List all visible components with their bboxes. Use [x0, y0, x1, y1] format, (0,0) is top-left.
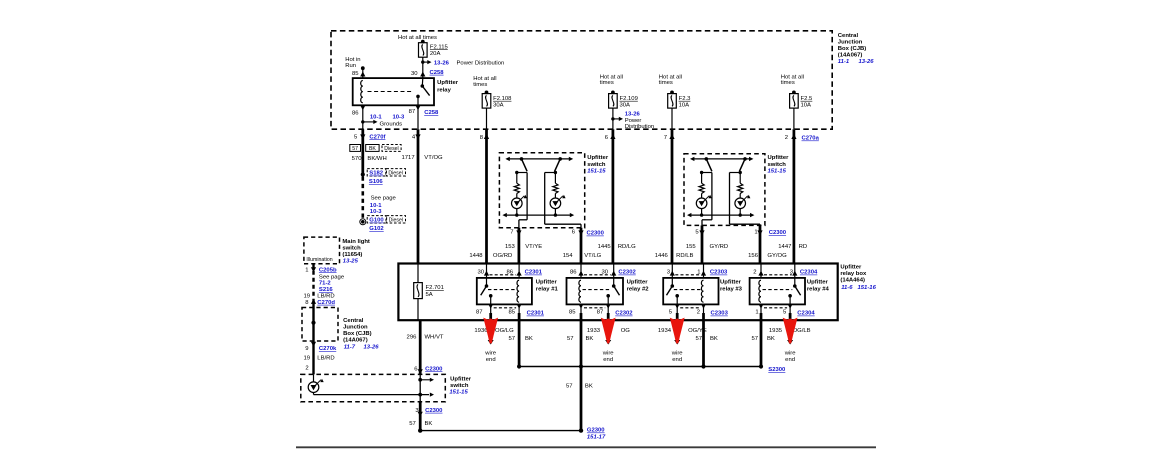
relay #1 coil — [517, 280, 519, 302]
svg-text:relay box: relay box — [840, 271, 867, 277]
svg-text:end: end — [785, 357, 795, 363]
fuse F2.108 30A — [482, 91, 512, 109]
relay #4 bottom pin labels — [755, 309, 815, 316]
svg-text:OG: OG — [621, 328, 631, 334]
svg-text:C2301: C2301 — [527, 311, 545, 317]
wire 1447 RD — [793, 129, 796, 263]
switch contact tap 2 — [730, 171, 742, 174]
label 296 WH/VT — [407, 335, 444, 341]
svg-text:F2.3: F2.3 — [679, 96, 692, 102]
switch output jog right — [730, 173, 761, 226]
lamp to bottom rail 1 — [700, 209, 703, 217]
upfitter switch label — [768, 155, 790, 174]
svg-text:C2303: C2303 — [710, 270, 728, 276]
red wire-end arrow 1933 — [601, 318, 616, 344]
switch bottom rail — [502, 213, 574, 217]
svg-text:See page: See page — [371, 196, 397, 202]
wire F2.3 down to CJB pin 7 — [671, 108, 673, 129]
svg-text:71-2: 71-2 — [319, 281, 332, 287]
svg-text:Upfitter: Upfitter — [807, 280, 829, 286]
svg-text:C270f: C270f — [369, 134, 385, 140]
label 1445 RD/LG — [598, 244, 637, 250]
svg-text:Upfitter: Upfitter — [536, 280, 558, 286]
label 57 BK (relay3) — [695, 336, 717, 342]
svg-text:times: times — [659, 80, 673, 86]
switch blade 1 — [520, 157, 527, 171]
svg-text:87: 87 — [409, 109, 416, 115]
svg-text:9: 9 — [305, 346, 308, 352]
pin 1 connector C205b — [305, 267, 337, 273]
page footer rule — [296, 446, 876, 448]
label Hot at all times (F2.109) — [600, 74, 623, 86]
label Hot at all times (F2.108) — [473, 76, 496, 88]
wire F2.115 to relay pin 30 — [422, 57, 424, 78]
main light switch dashed box — [304, 237, 340, 264]
label 19 LB/RD lower — [303, 356, 334, 362]
svg-text:LB/RD: LB/RD — [317, 356, 334, 362]
wire 154 VT/LG — [580, 228, 583, 264]
svg-text:wire: wire — [484, 350, 497, 356]
svg-text:153: 153 — [505, 244, 516, 250]
switch top rail — [690, 157, 753, 161]
svg-text:Grounds: Grounds — [380, 122, 403, 128]
svg-text:20A: 20A — [430, 51, 441, 57]
svg-text:151-16: 151-16 — [858, 285, 877, 291]
indicator resistor 1 — [699, 173, 704, 199]
svg-text:2: 2 — [785, 135, 788, 141]
svg-text:C2302: C2302 — [618, 270, 636, 276]
wire 1933 OG stub — [605, 313, 611, 345]
wire 1934 OG/YE stub — [674, 313, 680, 345]
svg-text:C258: C258 — [424, 110, 439, 116]
svg-text:Upfitter: Upfitter — [450, 376, 472, 382]
svg-text:5A: 5A — [426, 292, 433, 298]
switch contact tap 1 — [515, 171, 527, 174]
op relay #2 body — [567, 278, 624, 305]
svg-text:11-6: 11-6 — [841, 285, 853, 291]
lamp to bottom rail 2 — [739, 209, 742, 217]
svg-text:F2.115: F2.115 — [430, 44, 449, 50]
svg-text:BK: BK — [369, 146, 376, 152]
svg-text:C258: C258 — [430, 70, 445, 76]
svg-text:BK/WH: BK/WH — [367, 156, 386, 162]
label wire end 1934 — [671, 350, 684, 363]
svg-text:OG/LG: OG/LG — [495, 328, 514, 334]
fuse F2.115 20A — [419, 40, 449, 58]
relay #3 bottom pin arrows — [675, 304, 707, 313]
svg-text:154: 154 — [563, 253, 574, 259]
upfitter relay body — [353, 78, 434, 105]
relay #4 label — [807, 280, 830, 293]
svg-text:10A: 10A — [679, 102, 690, 108]
relay #1 bottom pin arrows — [488, 304, 522, 313]
op relay #4 body — [750, 278, 805, 305]
CJB label — [838, 33, 874, 65]
svg-text:7: 7 — [510, 230, 513, 236]
svg-text:156: 156 — [748, 253, 759, 259]
relay #2 top pin labels — [570, 269, 637, 275]
svg-text:296: 296 — [407, 335, 418, 341]
main light switch label — [342, 239, 370, 264]
ground G100 G102 — [360, 216, 406, 232]
svg-text:switch: switch — [587, 162, 606, 168]
fuse F2.5 10A — [790, 91, 813, 109]
relay #4 pin wires into box — [761, 264, 795, 278]
svg-text:Main light: Main light — [342, 239, 370, 245]
pin arrow 8 — [484, 134, 489, 139]
wire F2.108 down to CJB pin 8 — [486, 108, 488, 129]
switch contact tap 1 — [700, 171, 712, 174]
svg-text:1: 1 — [697, 269, 700, 275]
svg-text:1445: 1445 — [598, 244, 612, 250]
CJB lower label — [343, 318, 379, 350]
svg-text:C2302: C2302 — [615, 311, 633, 317]
svg-text:BK: BK — [710, 336, 718, 342]
svg-text:86: 86 — [570, 269, 577, 275]
svg-text:switch: switch — [768, 162, 787, 168]
svg-text:2: 2 — [753, 269, 756, 275]
relay #2 bottom pin arrows — [578, 304, 610, 313]
Central Junction Box (CJB) dashed boundary — [331, 31, 832, 129]
label wire end 1933 — [602, 350, 615, 363]
splice S182 S106 — [361, 169, 406, 185]
pin 3 connector C2300 — [415, 408, 443, 417]
relay #4 top pin labels — [753, 269, 818, 275]
pin 6 connector C2300 (bottom switch) — [414, 366, 443, 374]
svg-text:WH/VT: WH/VT — [425, 335, 444, 341]
fuse F2.3 10A — [668, 91, 691, 109]
op relay #3 body — [663, 278, 718, 305]
relay #2 pin wires into box — [581, 264, 614, 278]
svg-text:end: end — [603, 357, 613, 363]
upfitter relay box label — [840, 264, 876, 291]
label 156 GY/OG — [748, 253, 787, 259]
label 1448 OG/RD — [469, 253, 512, 259]
svg-text:VT/YE: VT/YE — [525, 244, 542, 250]
svg-text:Upfitter: Upfitter — [768, 155, 790, 161]
wire 1717 VT/OG — [417, 129, 420, 263]
svg-text:RD: RD — [799, 244, 808, 250]
svg-text:1717: 1717 — [401, 155, 414, 161]
pin 9 connector C270k — [305, 342, 337, 352]
pin arrow 5 — [360, 134, 365, 139]
svg-text:1935: 1935 — [769, 328, 783, 334]
svg-text:C270a: C270a — [802, 136, 820, 142]
node power distribution branch — [421, 60, 431, 64]
svg-text:end: end — [672, 357, 682, 363]
pin arrow 30 — [420, 72, 425, 77]
svg-text:11-1: 11-1 — [838, 59, 849, 65]
svg-text:1446: 1446 — [655, 253, 669, 259]
wire 1935 OG/LB stub — [787, 313, 793, 345]
upfitter relay label — [437, 80, 459, 94]
svg-text:7: 7 — [664, 135, 667, 141]
svg-text:relay #4: relay #4 — [807, 287, 830, 293]
indicator resistor 2 — [738, 173, 743, 199]
relay #2 actuator dashed link — [583, 289, 612, 291]
relay #3 coil — [701, 280, 703, 302]
svg-text:30: 30 — [411, 71, 418, 77]
svg-text:10-3: 10-3 — [393, 114, 406, 120]
svg-text:10-1: 10-1 — [370, 203, 383, 209]
pin arrow 2 — [791, 134, 796, 139]
upfitter relay box boundary — [398, 264, 837, 321]
svg-text:OG/RD: OG/RD — [493, 253, 512, 259]
svg-text:13-26: 13-26 — [859, 59, 875, 65]
relay #3 pin wires into box — [672, 264, 703, 278]
indicator lamp 1 — [696, 198, 707, 209]
svg-text:Box (CJB): Box (CJB) — [838, 46, 867, 52]
svg-text:VT/OG: VT/OG — [424, 155, 443, 161]
svg-text:C2300: C2300 — [587, 231, 605, 237]
switch contact tap 2 — [545, 171, 557, 174]
svg-text:BK: BK — [585, 383, 593, 389]
svg-text:C2300: C2300 — [425, 408, 443, 414]
relay #2 bottom pin labels — [569, 309, 633, 316]
wire 57 BK relay2 85 down to G2300 — [580, 313, 583, 431]
svg-text:relay #3: relay #3 — [720, 287, 743, 293]
relay #3 bottom pin labels — [669, 309, 729, 316]
svg-text:13-26: 13-26 — [364, 344, 380, 350]
svg-text:C2300: C2300 — [769, 230, 787, 236]
label 155 GY/RD — [686, 244, 728, 250]
svg-text:OG/LB: OG/LB — [793, 328, 811, 334]
svg-text:S216: S216 — [319, 287, 333, 293]
svg-text:Central: Central — [838, 33, 859, 39]
pin arrow 86 — [360, 105, 365, 129]
svg-text:BK: BK — [586, 336, 594, 342]
svg-text:Upfitter: Upfitter — [587, 155, 609, 161]
wire 57 BK relay1 85 — [518, 313, 521, 367]
label 1717 VT/OG — [401, 155, 443, 161]
pin arrow 4 — [415, 134, 420, 139]
svg-text:86: 86 — [352, 111, 359, 117]
wire 1445 RD/LG — [612, 129, 615, 263]
svg-text:57: 57 — [409, 421, 416, 427]
switch bottom rail — [687, 213, 754, 217]
svg-text:2: 2 — [305, 366, 308, 372]
switch blade 2 — [555, 157, 562, 171]
label 13-26 Power Distribution (F2.109) — [625, 112, 654, 131]
pin arrow 6 — [610, 134, 615, 139]
label 57 BK (relay2) — [567, 336, 593, 342]
indicator resistor 2 — [553, 173, 558, 199]
lamp to bottom rail 1 — [515, 209, 518, 217]
svg-text:G2300: G2300 — [587, 428, 605, 434]
relay #4 actuator dashed link — [763, 289, 793, 291]
svg-text:Upfitter: Upfitter — [627, 280, 649, 286]
svg-text:151-15: 151-15 — [768, 168, 787, 174]
svg-text:Illumination: Illumination — [306, 257, 332, 263]
bottom switch illumination lamp — [308, 374, 324, 394]
relay #4 top pin arrows — [758, 271, 797, 276]
relay #1 label — [536, 280, 559, 293]
svg-text:GY/OG: GY/OG — [767, 253, 787, 259]
svg-text:57: 57 — [695, 336, 702, 342]
svg-text:F2.5: F2.5 — [801, 96, 814, 102]
label 570 BK/WH — [352, 156, 387, 162]
svg-text:F2.701: F2.701 — [426, 285, 444, 291]
relay #3 top pin arrows — [670, 271, 706, 276]
relay #3 actuator dashed link — [674, 289, 701, 291]
svg-text:30A: 30A — [493, 102, 504, 108]
relay #3 top pin labels — [667, 269, 728, 275]
label 13-26 Power Distribution — [434, 61, 504, 67]
pin arrow 85 — [360, 72, 365, 77]
label wire end 1936 — [484, 350, 497, 363]
svg-text:10-1: 10-1 — [370, 114, 383, 120]
ground bus wire — [517, 364, 763, 368]
svg-text:RD/LG: RD/LG — [618, 244, 636, 250]
svg-text:Diesel: Diesel — [388, 170, 402, 176]
upfitter switch dashed box — [499, 153, 584, 228]
wire 1446 RD/LB — [671, 129, 674, 263]
relay #3 switch blade — [667, 278, 680, 305]
indicator lamp 1 — [512, 198, 523, 209]
svg-text:1933: 1933 — [587, 328, 601, 334]
label Hot in Run — [345, 57, 360, 69]
relay #4 bottom pin arrows — [758, 304, 792, 313]
CJB lower dashed box — [302, 308, 338, 342]
wire 296 WH/VT — [419, 320, 422, 374]
svg-text:F2.108: F2.108 — [493, 96, 512, 102]
svg-text:G102: G102 — [369, 226, 384, 232]
label 1446 RD/LB — [655, 253, 694, 259]
node power distribution branch F2.109 — [611, 117, 623, 121]
svg-text:BK: BK — [525, 336, 533, 342]
svg-text:85: 85 — [508, 309, 515, 315]
svg-text:times: times — [473, 82, 487, 88]
pin arrow 5 (switch2) — [699, 230, 704, 235]
svg-text:BK: BK — [425, 421, 433, 427]
svg-text:GY/RD: GY/RD — [710, 244, 729, 250]
relay #2 switch blade — [606, 278, 619, 305]
svg-text:1934: 1934 — [658, 328, 672, 334]
label 1447 RD — [778, 244, 807, 250]
svg-text:86: 86 — [506, 269, 513, 275]
red wire-end arrow 1935 — [783, 318, 798, 344]
relay #4 switch blade — [788, 278, 800, 305]
svg-text:151-17: 151-17 — [587, 435, 606, 441]
svg-text:C270k: C270k — [319, 346, 337, 352]
label See page 71-2 S216 — [319, 274, 345, 293]
label 19 LB/RD upper — [303, 294, 334, 300]
svg-text:1447: 1447 — [778, 244, 791, 250]
svg-text:C2303: C2303 — [711, 311, 729, 317]
wire 570 BK/WH — [361, 129, 364, 174]
switch blade 2 — [739, 157, 746, 171]
relay switch blade — [416, 78, 429, 105]
svg-text:57: 57 — [751, 336, 758, 342]
pin arrow 7 — [669, 134, 674, 139]
svg-text:Central: Central — [343, 318, 364, 324]
indicator lamp 2 — [735, 198, 746, 209]
label 1934 OG/YE — [658, 328, 707, 334]
switch output jog left — [519, 173, 527, 228]
svg-text:times: times — [781, 80, 795, 86]
ground G2300 — [587, 428, 606, 441]
svg-text:2: 2 — [697, 309, 700, 315]
wire 1448 OG/RD — [485, 129, 488, 263]
svg-text:BK: BK — [767, 336, 775, 342]
svg-text:Distribution: Distribution — [625, 124, 654, 130]
svg-text:87: 87 — [597, 309, 604, 315]
svg-text:19: 19 — [303, 356, 310, 362]
svg-text:(14A464): (14A464) — [840, 277, 865, 283]
svg-text:S182: S182 — [369, 171, 383, 177]
svg-text:30: 30 — [601, 269, 608, 275]
wire 153 VT/YE — [518, 228, 521, 264]
relay #4 coil — [759, 280, 761, 302]
label 57 BK (below bus) — [566, 383, 593, 389]
grounds branch node — [361, 120, 377, 124]
svg-text:relay: relay — [437, 88, 451, 94]
svg-text:57: 57 — [567, 336, 574, 342]
relay #2 coil — [579, 280, 581, 302]
wire 19 LB/RD dashed segment — [312, 264, 314, 301]
svg-text:(14A067): (14A067) — [343, 338, 368, 344]
svg-text:relay #2: relay #2 — [627, 287, 650, 293]
switch output jog left — [702, 173, 712, 226]
upfitter switch dashed box — [684, 154, 765, 226]
ground run to G2300 — [418, 428, 583, 432]
svg-text:C2301: C2301 — [525, 270, 543, 276]
indicator resistor 1 — [514, 173, 519, 199]
svg-text:Box (CJB): Box (CJB) — [343, 331, 372, 337]
svg-text:S2300: S2300 — [768, 367, 786, 373]
svg-text:Run: Run — [345, 63, 356, 69]
svg-text:57: 57 — [508, 336, 515, 342]
switch blade 1 — [705, 157, 712, 171]
pin arrow 6 — [578, 230, 583, 235]
svg-text:11-7: 11-7 — [344, 344, 356, 350]
op relay #1 body — [477, 278, 532, 305]
bottom switch wire and arrows — [314, 374, 435, 401]
label 57 BK (relay4) — [751, 336, 774, 342]
lamp to bottom rail 2 — [554, 209, 557, 217]
relay #1 pin wires into box — [487, 264, 520, 278]
switch output jog right — [545, 173, 581, 228]
wire hot-in-run to relay pin 85 — [361, 66, 365, 78]
svg-text:F2.109: F2.109 — [620, 96, 638, 102]
svg-text:30: 30 — [477, 269, 484, 275]
svg-text:RD/LB: RD/LB — [676, 253, 693, 259]
svg-text:13-25: 13-25 — [343, 258, 359, 264]
svg-text:switch: switch — [450, 383, 469, 389]
label Hot at all times (F2.3) — [659, 74, 682, 86]
label 57 BK (bottom) — [409, 421, 432, 427]
wire 57 BK relay3 coil — [702, 313, 705, 367]
wire 156 GY/OG — [759, 225, 762, 263]
bottom upfitter switch dashed box — [301, 374, 446, 401]
svg-text:570: 570 — [352, 156, 363, 162]
svg-text:1448: 1448 — [469, 253, 483, 259]
label 57 BK Diesel boxed — [350, 145, 401, 153]
svg-text:See page: See page — [319, 274, 345, 280]
svg-text:Hot at all times: Hot at all times — [398, 35, 437, 41]
svg-text:LB/RD: LB/RD — [317, 294, 334, 300]
svg-text:G100: G100 — [369, 218, 384, 224]
svg-text:10A: 10A — [801, 102, 812, 108]
svg-text:1: 1 — [754, 230, 757, 236]
label 57 BK (relay1) — [508, 336, 532, 342]
relay #1 switch blade — [481, 278, 493, 305]
wire to ground G100/G102 (dashed) — [361, 177, 364, 220]
indicator lamp 2 — [550, 198, 561, 209]
svg-text:85: 85 — [352, 71, 359, 77]
svg-text:C2304: C2304 — [797, 311, 815, 317]
red wire-end arrow 1936 — [483, 318, 498, 344]
